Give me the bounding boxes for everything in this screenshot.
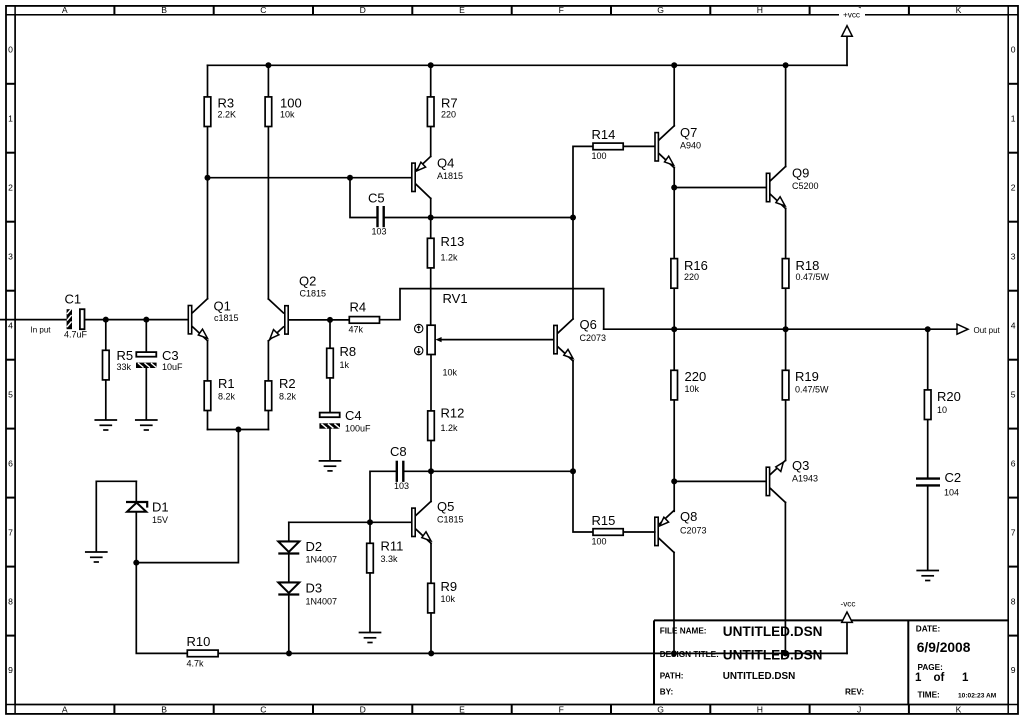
wire Q8 emitter to -vcc rail [673, 552, 675, 653]
ground under R11 [360, 633, 381, 643]
svg-text:D: D [360, 5, 366, 15]
node Q7 emitter / Q9 base / R16 [671, 185, 677, 191]
svg-text:A: A [62, 705, 68, 715]
svg-text:6/9/2008: 6/9/2008 [917, 640, 971, 655]
svg-text:R13: R13 [441, 234, 465, 249]
wire -vcc bottom rail [289, 652, 847, 654]
wire top +vcc rail [208, 64, 848, 66]
svg-text:2.2K: 2.2K [218, 109, 237, 119]
transistor Q6 [554, 317, 606, 361]
resistor R9 [428, 579, 457, 653]
transistor Q1 [188, 299, 238, 341]
svg-text:PATH:: PATH: [660, 671, 684, 680]
node top rail / Q7 collector [671, 62, 677, 68]
svg-text:R10: R10 [187, 634, 211, 649]
svg-text:UNTITLED.DSN: UNTITLED.DSN [723, 648, 823, 663]
node output rail / R16 [671, 326, 677, 332]
svg-text:1k: 1k [340, 360, 350, 370]
svg-text:C1815: C1815 [437, 515, 464, 525]
power -vcc [840, 600, 855, 654]
svg-text:1: 1 [8, 114, 13, 124]
wire RV1 wiper to Q6 base [435, 337, 553, 342]
node rail / Q3 collector [782, 650, 788, 656]
svg-text:3.3k: 3.3k [381, 554, 399, 564]
wire Q9 base [674, 187, 765, 189]
diode D2 [278, 539, 337, 565]
node rail / D3 [286, 650, 292, 656]
node top rail / R7 [428, 62, 434, 68]
resistor R6 value 100/10k [265, 65, 302, 299]
svg-text:DESIGN TITLE:: DESIGN TITLE: [660, 650, 719, 659]
resistor R7 [427, 65, 457, 156]
node output rail / R18 [783, 326, 789, 332]
svg-text:E: E [459, 5, 465, 15]
svg-text:C4: C4 [345, 408, 362, 423]
svg-text:FILE NAME:: FILE NAME: [660, 627, 707, 636]
resistor R12 [428, 406, 465, 502]
resistor R18 [782, 258, 829, 329]
svg-text:4: 4 [8, 320, 13, 330]
svg-text:Q7: Q7 [680, 125, 697, 140]
svg-text:R15: R15 [592, 513, 616, 528]
wire Q3 base [674, 480, 765, 482]
border row numbers right [1011, 45, 1016, 676]
svg-text:R20: R20 [937, 389, 961, 404]
port Out put [957, 324, 1001, 335]
svg-text:Q1: Q1 [214, 299, 231, 314]
svg-text:7: 7 [8, 527, 13, 537]
svg-text:R4: R4 [350, 300, 367, 315]
svg-text:2: 2 [8, 182, 13, 192]
svg-text:0.47/5W: 0.47/5W [796, 272, 830, 282]
transistor Q9 [766, 166, 818, 209]
svg-text:R14: R14 [592, 127, 616, 142]
transistor Q5 [412, 499, 464, 543]
svg-text:R12: R12 [441, 406, 465, 421]
wire Q6 emitter column to R15 [573, 361, 593, 532]
svg-text:220: 220 [685, 369, 707, 384]
resistor R11 [367, 522, 404, 632]
svg-text:C5200: C5200 [792, 181, 819, 191]
node input / C3 [143, 317, 149, 323]
diode D3 [278, 581, 337, 607]
wire RV1 bottom to R12 [430, 355, 432, 411]
node emitter link / tail [235, 427, 241, 433]
transistor Q4 [412, 156, 463, 199]
svg-text:3: 3 [1011, 251, 1016, 261]
svg-text:8: 8 [1011, 596, 1016, 606]
node input / R5 [103, 317, 109, 323]
resistor R10 [187, 634, 290, 668]
ground under R5 [95, 420, 116, 430]
svg-text:10k: 10k [443, 368, 458, 378]
svg-text:8: 8 [8, 596, 13, 606]
svg-text:103: 103 [394, 481, 409, 491]
svg-text:R7: R7 [441, 95, 458, 110]
wire Q1 collector up [207, 178, 209, 299]
svg-text:UNTITLED.DSN: UNTITLED.DSN [723, 624, 823, 639]
svg-text:Q6: Q6 [580, 317, 597, 332]
svg-text:Q2: Q2 [299, 274, 316, 289]
wire Q9 collector to rail [785, 65, 787, 166]
svg-text:PAGE:: PAGE: [918, 663, 943, 672]
wire tail down to D1 node [136, 430, 238, 563]
wire Q5 base [289, 521, 411, 523]
border column letters bottom [62, 705, 962, 715]
wire C5 left branch [350, 178, 376, 218]
svg-text:R5: R5 [117, 348, 134, 363]
svg-text:104: 104 [944, 488, 959, 498]
node R3 / Q1 collector / Q4 base [205, 175, 211, 181]
svg-text:C: C [260, 705, 266, 715]
svg-text:of: of [934, 672, 945, 684]
svg-text:RV1: RV1 [443, 291, 468, 306]
svg-text:C8: C8 [390, 444, 407, 459]
svg-text:Q9: Q9 [792, 166, 809, 181]
svg-text:R16: R16 [684, 258, 708, 273]
svg-text:6: 6 [8, 458, 13, 468]
svg-text:220: 220 [441, 109, 456, 119]
svg-text:D3: D3 [306, 581, 323, 596]
wire feedback R4 up-over [380, 289, 604, 330]
title text PATH [660, 671, 796, 682]
node D1 / tail / R10 [133, 560, 139, 566]
wire Q5 emitter to R9 [430, 543, 432, 583]
svg-text:R19: R19 [795, 369, 819, 384]
port In put [0, 320, 66, 335]
wire Q6 collector column [573, 146, 593, 319]
resistor R4 [349, 300, 380, 335]
node top rail / R6 [265, 62, 271, 68]
svg-text:R11: R11 [381, 539, 404, 554]
svg-text:7: 7 [1011, 527, 1016, 537]
svg-text:4.7uF: 4.7uF [64, 330, 88, 340]
node Q8 collector / Q3 base [671, 478, 677, 484]
svg-text:10k: 10k [280, 109, 295, 119]
node Q5 base / R11 / C8 [367, 519, 373, 525]
svg-text:R1: R1 [218, 376, 235, 391]
svg-text:C: C [260, 5, 266, 15]
wire C1 to Q1 base [85, 319, 187, 321]
border row numbers left [8, 45, 13, 676]
svg-text:TIME:: TIME: [918, 691, 940, 700]
capacitor C1 polarized [64, 292, 88, 340]
svg-text:9: 9 [8, 665, 13, 675]
resistor R15 [592, 513, 655, 547]
svg-text:C2: C2 [945, 470, 962, 485]
svg-text:-vcc: -vcc [840, 600, 855, 609]
svg-text:A1943: A1943 [792, 474, 818, 484]
svg-text:C3: C3 [162, 348, 179, 363]
svg-text:H: H [757, 5, 763, 15]
wire Q7 collector to rail [673, 65, 675, 126]
svg-text:10:02:23 AM: 10:02:23 AM [958, 693, 997, 700]
resistor R16 [671, 258, 708, 329]
node C5 wire / R13 top [428, 215, 434, 221]
capacitor C3 polarized [136, 320, 183, 420]
svg-text:R8: R8 [340, 344, 357, 359]
transistor Q8 [655, 509, 707, 552]
svg-text:R2: R2 [279, 376, 296, 391]
svg-text:0: 0 [1011, 45, 1016, 55]
wire D2 to D3 [288, 555, 290, 583]
node Q6 emitter / C8 wire [570, 468, 576, 474]
svg-text:10uF: 10uF [162, 362, 183, 372]
wire C8 right to Q6 emitter column [405, 470, 574, 472]
svg-text:100: 100 [280, 95, 302, 110]
wire Q3 collector to -vcc rail [784, 502, 786, 653]
border column ticks bottom [114, 705, 909, 714]
node C5 wire / Q6 collector column [570, 215, 576, 221]
svg-text:3: 3 [8, 251, 13, 261]
wire Q2 emitter to R2 [267, 341, 269, 381]
svg-text:C1: C1 [65, 292, 82, 307]
wire D3 to rail [288, 596, 290, 654]
ground under C2 [917, 571, 938, 581]
svg-text:BY:: BY: [660, 687, 674, 696]
svg-text:1N4007: 1N4007 [306, 597, 338, 607]
wire Q1 emitter to R1 [207, 341, 209, 381]
svg-text:B: B [161, 5, 167, 15]
svg-text:100: 100 [592, 151, 607, 161]
resistor R13 [427, 234, 464, 325]
border column ticks top [114, 6, 909, 15]
svg-text:103: 103 [372, 227, 387, 237]
svg-text:A: A [62, 5, 68, 15]
resistor R20 [924, 329, 960, 477]
node top rail / Q9 collector [783, 62, 789, 68]
border row ticks right [1008, 84, 1018, 636]
svg-text:A940: A940 [680, 141, 701, 151]
svg-text:D: D [360, 705, 366, 715]
svg-text:A1815: A1815 [437, 171, 463, 181]
svg-text:D1: D1 [152, 500, 169, 515]
svg-text:+vcc: +vcc [843, 11, 860, 20]
title text DATE [916, 625, 971, 655]
resistor R3 [204, 65, 236, 177]
ground under C3 [136, 420, 157, 430]
wire Q2 base to R4 [289, 319, 349, 321]
svg-text:33k: 33k [117, 362, 132, 372]
svg-text:1.2k: 1.2k [441, 253, 459, 263]
resistor R8 [327, 320, 356, 413]
svg-text:Q5: Q5 [437, 499, 454, 514]
ground under D1 arm [86, 552, 107, 562]
node rail / Q8 emitter [671, 650, 677, 656]
resistor R5 [103, 320, 134, 420]
svg-text:R18: R18 [796, 258, 820, 273]
svg-text:2: 2 [1011, 182, 1016, 192]
svg-text:9: 9 [1011, 665, 1016, 675]
svg-text:5: 5 [1011, 389, 1016, 399]
svg-text:1N4007: 1N4007 [306, 555, 338, 565]
svg-text:K: K [956, 5, 962, 15]
border row ticks left [6, 84, 15, 636]
svg-text:B: B [161, 705, 167, 715]
node R12 / C8 / Q5 collector [428, 468, 434, 474]
title text TIME [918, 691, 997, 700]
title block [654, 620, 1008, 704]
node rail / R9 [428, 650, 434, 656]
svg-text:F: F [559, 5, 564, 15]
svg-text:c1815: c1815 [214, 313, 239, 323]
title text BY / REV [660, 687, 864, 696]
svg-text:4: 4 [1011, 320, 1016, 330]
svg-text:1.2k: 1.2k [441, 423, 459, 433]
title text FILE NAME [660, 624, 823, 639]
wire Q4 emitter to R13 [430, 198, 432, 238]
transistor Q2 mirrored [268, 274, 326, 341]
svg-text:1: 1 [1011, 114, 1016, 124]
svg-text:Out put: Out put [974, 326, 1001, 335]
wire Q7 emitter down [673, 168, 675, 258]
zener diode D1 [126, 481, 169, 562]
svg-text:F: F [559, 705, 564, 715]
wire C8 branch from Q5 base node [370, 471, 396, 522]
potentiometer RV1 [415, 291, 468, 378]
svg-text:J: J [857, 705, 861, 715]
wire D1 node down to R10 row [136, 563, 187, 654]
svg-text:220: 220 [684, 272, 699, 282]
node C5 branch [347, 175, 353, 181]
svg-text:0: 0 [8, 45, 13, 55]
ground under C4 [320, 461, 341, 471]
svg-text:100uF: 100uF [345, 424, 371, 434]
capacitor C5 [368, 191, 387, 237]
svg-text:100: 100 [592, 537, 607, 547]
svg-text:Q3: Q3 [792, 458, 809, 473]
svg-text:6: 6 [1011, 458, 1016, 468]
svg-text:8.2k: 8.2k [218, 392, 236, 402]
svg-text:Q4: Q4 [437, 156, 454, 171]
svg-text:E: E [459, 705, 465, 715]
svg-text:DATE:: DATE: [916, 625, 940, 634]
svg-text:10k: 10k [685, 384, 700, 394]
svg-text:10k: 10k [441, 594, 456, 604]
svg-text:Q8: Q8 [680, 509, 697, 524]
title text DESIGN TITLE [660, 648, 823, 663]
node output rail / R20 [925, 326, 931, 332]
wire R1-R2 emitter link [208, 429, 269, 431]
svg-text:8.2k: 8.2k [279, 392, 297, 402]
node Q2 base / R8 / R4 [327, 317, 333, 323]
transistor Q3 [766, 458, 818, 502]
capacitor C2 [916, 470, 961, 570]
capacitor C4 polarized [319, 408, 371, 460]
svg-text:R9: R9 [441, 579, 458, 594]
power +vcc [839, 8, 865, 65]
resistor R14 [592, 127, 655, 161]
svg-text:10: 10 [937, 405, 947, 415]
svg-text:C1815: C1815 [300, 289, 327, 299]
title text PAGE [915, 663, 969, 684]
wire Q4 base net (R3 bottom to Q4) [208, 177, 412, 179]
svg-text:UNTITLED.DSN: UNTITLED.DSN [723, 671, 795, 682]
wire D2-D3 branch from Q5 base [288, 522, 290, 541]
wire D1 cathode to ground arm [96, 481, 136, 551]
svg-text:15V: 15V [152, 515, 168, 525]
resistor R19 [782, 329, 829, 460]
svg-text:C2073: C2073 [680, 526, 707, 536]
svg-text:47k: 47k [349, 325, 364, 335]
wire Q9 emitter to R18 [785, 209, 787, 259]
svg-text:4.7k: 4.7k [187, 659, 205, 669]
svg-text:K: K [956, 705, 962, 715]
svg-text:R3: R3 [218, 95, 235, 110]
svg-text:C2073: C2073 [580, 333, 607, 343]
svg-text:C5: C5 [368, 191, 385, 206]
capacitor C8 [390, 444, 409, 491]
svg-text:5: 5 [8, 389, 13, 399]
border column letters top [62, 5, 962, 15]
svg-text:D2: D2 [306, 539, 323, 554]
svg-text:1: 1 [915, 672, 922, 684]
svg-text:G: G [657, 705, 664, 715]
wire C5 right to Q6 collector column [385, 217, 573, 219]
transistor Q7 [655, 125, 701, 168]
svg-text:In put: In put [31, 326, 52, 335]
resistor R17 value 220/10k [671, 329, 706, 511]
resistor R1 [204, 376, 235, 430]
resistor R2 [265, 376, 296, 430]
svg-text:G: G [657, 5, 664, 15]
svg-text:H: H [757, 705, 763, 715]
svg-text:REV:: REV: [845, 687, 864, 696]
svg-text:1: 1 [962, 672, 969, 684]
svg-text:0.47/5W: 0.47/5W [795, 385, 829, 395]
wire output rail [604, 328, 957, 330]
